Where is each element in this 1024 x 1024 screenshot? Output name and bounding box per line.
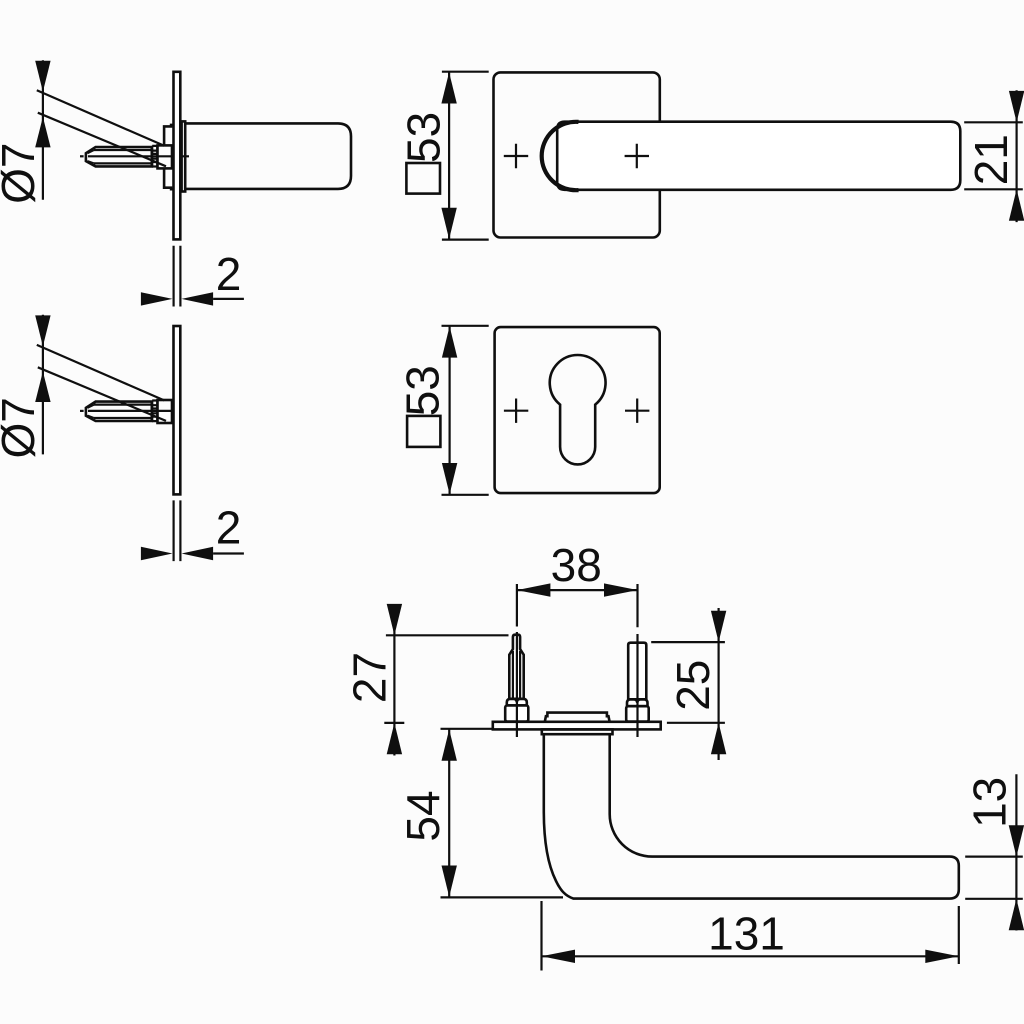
svg-text:21: 21	[965, 134, 1017, 185]
dimension 25 arrow top E	[711, 611, 726, 642]
dimension 53 C dimension line	[448, 72, 450, 240]
dimension 27 extension top E	[386, 634, 509, 636]
right screw thread collar E	[627, 699, 648, 706]
dimension Ø7 A extension lines	[37, 90, 166, 166]
dimension 13 arrow bottom E	[1009, 899, 1024, 930]
dimension 27 extension bottom E	[384, 722, 404, 724]
left screw nut E	[505, 705, 528, 721]
dimension 131 dimension line E	[542, 955, 959, 957]
dimension 54 dimension line E	[448, 729, 450, 898]
dimension 38 arrow left E	[517, 583, 551, 596]
svg-text:Ø7: Ø7	[0, 397, 44, 458]
centerline left screw E	[516, 584, 518, 737]
dimension 53 D dimension line	[449, 326, 451, 495]
neck collar ring A	[182, 121, 186, 191]
svg-text:53: 53	[397, 365, 449, 416]
dimension Ø7 A arrow up	[35, 117, 50, 147]
dimension 131 extension left E	[540, 901, 542, 971]
dimension 2 A arrow right	[182, 292, 214, 305]
svg-text:53: 53	[397, 112, 449, 163]
screw thread body B	[86, 402, 152, 421]
dimension 21 C arrow bottom	[1009, 189, 1024, 220]
right screw cylinder E	[628, 643, 646, 700]
dimension Ø7 A dimension line	[42, 60, 44, 200]
screw mark right D	[625, 399, 649, 423]
dimension 25 extension bottom E	[667, 722, 725, 724]
handle neck cylinder A	[185, 123, 351, 188]
dimension 2 B extension lines	[174, 500, 181, 561]
svg-text:38: 38	[551, 539, 602, 591]
right screw nut E	[626, 706, 649, 721]
screw head B	[158, 400, 173, 423]
svg-text:27: 27	[343, 652, 395, 703]
dimension 2 A extension lines	[174, 246, 181, 307]
dimension 2 B arrow left	[141, 547, 173, 560]
neck collar band E	[542, 729, 613, 734]
dimension 2 A arrow left	[141, 292, 173, 305]
svg-text:2: 2	[216, 502, 242, 554]
rose flange upper lip A	[164, 125, 173, 145]
centerline screw A	[80, 155, 189, 157]
screw mark right C	[625, 144, 649, 168]
dimension 21 C dimension line	[1015, 90, 1017, 222]
svg-text:54: 54	[397, 790, 449, 841]
dimension 54 arrow up E	[442, 729, 457, 760]
rose flange lower lip A	[164, 169, 173, 190]
square escutcheon D	[495, 327, 660, 493]
dimension 53 C extension lines	[442, 72, 489, 240]
dimension 25 arrow bottom E	[711, 723, 726, 754]
dimension 53 D arrow up	[442, 326, 457, 357]
dimension 131 arrow left E	[542, 950, 576, 963]
screw mark left D	[504, 399, 528, 423]
handle neck circle C	[542, 122, 579, 190]
dimension 131 extension right E	[958, 906, 960, 964]
screw mark left C	[504, 144, 528, 168]
dimension 13 extension bottom E	[965, 898, 1023, 900]
neck and lever outline E	[544, 734, 959, 898]
screw collar thread B	[152, 401, 157, 422]
rose plate A (2mm)	[174, 72, 181, 240]
dimension 27 dimension line E	[393, 609, 395, 756]
dimension 2 B arrow right	[182, 547, 214, 560]
dimension 54 extension top E	[441, 728, 492, 730]
label square symbol D	[407, 416, 440, 447]
svg-text:2: 2	[216, 248, 242, 300]
square rose C	[494, 72, 660, 237]
dimension 38 dimension line E	[517, 589, 638, 591]
dimension Ø7 B arrow down	[35, 315, 50, 346]
dimension Ø7 B extension lines	[37, 345, 166, 421]
spindle boss on plate E	[545, 713, 610, 723]
screw collar thread A	[152, 146, 157, 167]
label square symbol C	[406, 163, 440, 194]
dimension 131 arrow right E	[925, 950, 959, 963]
dimension Ø7 A arrow down	[35, 61, 50, 92]
dimension 2 B tail line	[213, 552, 244, 554]
dimension 54 arrow down E	[442, 866, 457, 897]
centerline right screw E	[636, 584, 638, 737]
euro profile cylinder hole D	[550, 355, 606, 464]
svg-text:13: 13	[964, 777, 1016, 828]
dimension 13 arrow top E	[1009, 825, 1024, 856]
dimension Ø7 B arrow up	[35, 372, 50, 403]
dimension 38 arrow right E	[604, 583, 638, 596]
dimension 53 C arrow up	[441, 72, 456, 103]
svg-text:Ø7: Ø7	[0, 143, 44, 204]
mounting plate E	[493, 722, 661, 730]
screw head A	[158, 145, 173, 168]
dimension 53 C arrow down	[441, 208, 456, 239]
dimension 53 D extension lines	[442, 326, 489, 495]
dimension 54 extension bottom E	[441, 896, 564, 898]
left screw thread collar E	[507, 699, 527, 706]
dimension 2 A tail line	[213, 298, 244, 300]
dimension 27 arrow bottom E	[387, 723, 402, 754]
svg-text:25: 25	[667, 660, 719, 711]
dimension 25 dimension line E	[717, 608, 719, 760]
dimension 27 arrow top E	[387, 604, 402, 635]
dimension 13 extension top E	[965, 855, 1023, 857]
dimension 21 C extension lines	[964, 122, 1023, 189]
dimension 13 dimension line E	[1015, 774, 1017, 930]
svg-text:131: 131	[708, 907, 785, 959]
dimension 53 D arrow down	[442, 463, 457, 494]
left screw shaft E	[509, 635, 523, 699]
centerline screw B	[80, 410, 180, 412]
dimension 21 C arrow top	[1009, 91, 1024, 122]
dimension 25 extension top E	[651, 641, 725, 643]
rose plate B (2mm)	[174, 326, 181, 494]
dimension Ø7 B dimension line	[42, 315, 44, 455]
screw thread body A	[86, 147, 152, 166]
lever handle C	[557, 122, 960, 190]
